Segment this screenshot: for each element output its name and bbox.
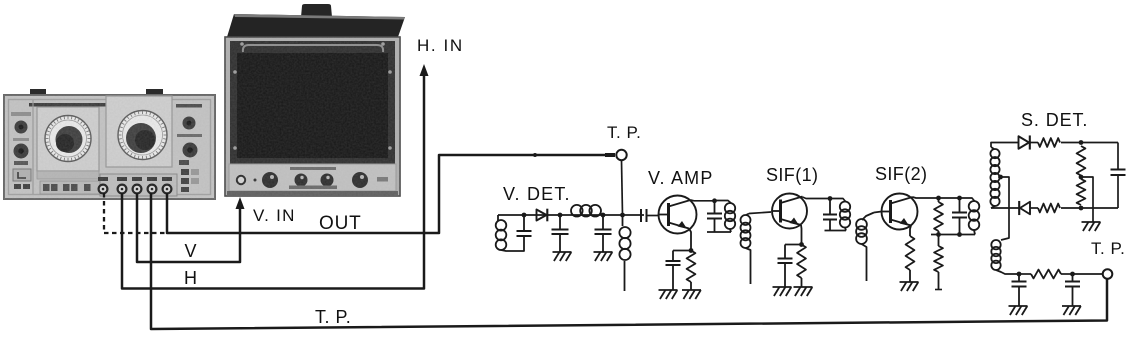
inductor L2 (peaking coil) xyxy=(571,205,601,217)
ground C12 xyxy=(1062,306,1081,315)
transformer T3 secondary (discriminator) coil xyxy=(990,147,999,208)
node L2 right xyxy=(601,213,606,218)
node R10 out xyxy=(1070,272,1075,277)
tertiary coil (audio takeoff) xyxy=(991,240,1019,274)
arrow H.IN xyxy=(420,64,429,76)
ground C7 xyxy=(773,287,792,296)
transformer T1 secondary coil xyxy=(741,214,751,285)
oscilloscope (centre instrument photo) xyxy=(225,4,405,196)
capacitor C2 to ground xyxy=(552,215,569,252)
svg-text:SIF(1): SIF(1) xyxy=(766,165,818,185)
wire OUT from jack5 to schematic T.P. xyxy=(167,155,614,233)
resistor R1 (emitter) xyxy=(687,251,696,291)
resistor R5 (lower) xyxy=(934,235,943,290)
node centre tap of secondary xyxy=(998,175,1003,180)
ground tap xyxy=(1082,222,1101,231)
svg-text:SIF(2): SIF(2) xyxy=(875,164,927,184)
test point TP2 (bottom right) xyxy=(1103,269,1113,279)
sweep generator (left instrument photo) xyxy=(4,89,215,199)
wire emitter node to C5 xyxy=(673,250,691,252)
wire tank bottom rail xyxy=(707,231,731,233)
node T.P. junction on bus xyxy=(620,213,625,218)
svg-text:V. IN: V. IN xyxy=(253,206,296,225)
ground C2 xyxy=(553,252,572,261)
transformer T3 primary coil xyxy=(969,201,980,235)
capacitor C3 to ground xyxy=(595,215,612,252)
transistor Q1 V.AMP xyxy=(659,196,697,234)
wire centre tap down xyxy=(1001,177,1010,240)
wire R6 to node A xyxy=(1061,142,1081,144)
resistor R7 (divider upper) xyxy=(1077,146,1086,176)
node B xyxy=(1079,206,1084,211)
transistor Q3 SIF(2) xyxy=(882,194,918,230)
capacitor C1 (input tank) xyxy=(517,215,532,247)
svg-text:V. AMP: V. AMP xyxy=(648,168,714,188)
node Q2 collector rail xyxy=(828,196,833,201)
capacitor C12 to ground xyxy=(1065,274,1080,306)
label T.P. right xyxy=(1091,239,1125,258)
ground C3 xyxy=(594,252,613,261)
svg-text:T. P.: T. P. xyxy=(315,307,351,327)
input coil L1 xyxy=(496,215,524,251)
wire node to test point TP2 xyxy=(1073,273,1103,275)
arrow V.IN xyxy=(236,197,245,209)
svg-text:S. DET.: S. DET. xyxy=(1021,110,1088,130)
wire R10 in xyxy=(1019,273,1031,275)
wire H from jack2 to scope H.IN xyxy=(122,71,424,289)
node dot on T.P. wire xyxy=(533,153,537,157)
wire tap to ground xyxy=(1081,177,1093,222)
svg-text:V: V xyxy=(185,241,197,261)
wire Q2 collector to rail xyxy=(803,197,829,199)
capacitor C6 (tank V.AMP) xyxy=(707,201,722,232)
node C9 bottom xyxy=(957,232,962,237)
label V. DET. xyxy=(503,184,571,204)
wire Q1 collector to top rail xyxy=(691,199,715,202)
wire R10 to node xyxy=(1061,273,1073,275)
wire tank2 top xyxy=(828,199,846,202)
node R4 bottom xyxy=(936,232,941,237)
resistor R3 (emitter) xyxy=(906,236,915,282)
ground R2 xyxy=(794,287,813,296)
wire secondary bottom to D3 xyxy=(991,207,1019,209)
wire R9 to node B xyxy=(1061,207,1081,209)
wire tank2 bottom rail xyxy=(825,230,847,232)
wire V.DET main bus xyxy=(498,214,644,216)
label H xyxy=(184,268,197,288)
wire Q3 collector to rail xyxy=(913,197,939,198)
wire Q1 emitter down xyxy=(689,229,691,251)
svg-text:T. P.: T. P. xyxy=(1091,239,1125,258)
label OUT xyxy=(319,213,362,234)
wire T1 secondary to Q2 base xyxy=(749,212,771,214)
transformer T2 secondary coil xyxy=(856,213,874,282)
svg-text:OUT: OUT xyxy=(319,213,362,234)
wire T2 secondary to Q3 base xyxy=(874,212,882,213)
wire V from jack3 to scope V.IN xyxy=(137,193,240,262)
ground C11 xyxy=(1009,306,1028,315)
transformer T1 primary coil xyxy=(725,203,735,232)
test point TP1 (top) xyxy=(616,150,626,215)
label V. IN xyxy=(253,206,296,225)
node blob before test point xyxy=(605,153,615,157)
wire tank top to primary xyxy=(715,201,732,204)
coil L3 to below xyxy=(619,215,630,291)
wire Q3 emitter down xyxy=(910,226,911,237)
ground R1 xyxy=(682,290,701,299)
resistor R6 (upper arm) xyxy=(1038,138,1060,147)
label V. AMP xyxy=(648,168,714,188)
label S. DET. xyxy=(1021,110,1088,130)
node D1 cathode xyxy=(558,213,563,218)
node V.DET bus / C1 xyxy=(522,213,527,218)
transformer T2 primary coil xyxy=(840,202,850,231)
label T.P. top xyxy=(607,123,641,142)
wire tank3 top xyxy=(960,198,975,201)
resistor R4 (damping) xyxy=(934,198,943,235)
resistor R8 (divider lower) xyxy=(1077,179,1086,205)
svg-text:V. DET.: V. DET. xyxy=(503,184,571,204)
resistor R10 (de-emphasis) xyxy=(1031,270,1061,279)
wire Q2 emitter down xyxy=(800,225,803,245)
wire secondary top to D2 xyxy=(991,143,1019,148)
capacitor C11 to ground xyxy=(1012,274,1027,306)
node Q1 emitter xyxy=(689,248,694,253)
node Q2 emitter xyxy=(799,242,804,247)
label H. IN xyxy=(417,36,464,55)
label V xyxy=(185,241,197,261)
node divider tap xyxy=(1079,175,1084,180)
capacitor C5 (emitter bypass) xyxy=(666,251,681,291)
transistor Q2 SIF(1) xyxy=(772,194,807,229)
capacitor C4 (coupling) xyxy=(641,209,659,222)
resistor R2 (emitter) xyxy=(797,245,806,288)
wire tank3 bottom rail xyxy=(931,234,975,236)
label SIF(2) xyxy=(875,164,927,184)
wire D3 to R9 xyxy=(1030,207,1038,209)
capacitor C9 (tank SIF2) xyxy=(952,198,967,235)
wire T.P. long bottom from jack4 to right test point xyxy=(151,193,1107,329)
svg-text:T. P.: T. P. xyxy=(607,123,641,142)
capacitor C10 (right leg) xyxy=(1111,143,1126,209)
ground C5 xyxy=(659,290,678,299)
node Q1 collector rail xyxy=(712,198,717,203)
wire emitter node to C7 xyxy=(785,244,802,246)
wire D2 to R6 xyxy=(1030,142,1038,144)
capacitor C8 (tank SIF1) xyxy=(823,199,837,231)
node A xyxy=(1079,140,1084,145)
diode D1 (video detector) xyxy=(537,209,548,222)
svg-text:H: H xyxy=(184,268,197,288)
diode D2 (upper) xyxy=(1019,135,1030,149)
svg-text:H. IN: H. IN xyxy=(417,36,464,55)
label T.P. bottom xyxy=(315,307,351,327)
wire dashed jack1 to OUT line xyxy=(104,193,166,233)
wire node A to right leg xyxy=(1081,142,1118,144)
label SIF(1) xyxy=(766,165,818,185)
capacitor C7 (emitter bypass) xyxy=(778,245,793,288)
wire right leg bottom to node B xyxy=(1081,207,1118,209)
ground R3 xyxy=(900,282,919,291)
node tertiary RC in xyxy=(1017,272,1022,277)
resistor R9 (lower arm) xyxy=(1038,204,1060,213)
diode D3 (lower) xyxy=(1019,201,1030,215)
node Q3 collector rail xyxy=(936,196,941,201)
node C9 top xyxy=(957,196,962,201)
wire rail to C9 xyxy=(939,197,960,199)
